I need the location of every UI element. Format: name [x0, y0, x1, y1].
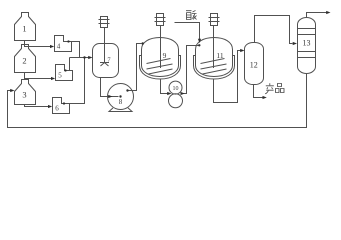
junction dot feeder6 outlet	[63, 102, 65, 104]
arrow into vessel7	[88, 56, 92, 59]
junction dot collector	[83, 56, 85, 58]
text 产品 (product) hand-drawn	[265, 83, 284, 94]
feeder 4	[55, 36, 72, 52]
tank 2	[15, 45, 36, 73]
impeller 7	[100, 63, 109, 67]
junction dot feeder5 outlet	[64, 69, 66, 71]
svg-text:3: 3	[22, 90, 26, 100]
wire column13 top out	[307, 13, 328, 18]
tank 1	[15, 13, 36, 41]
jacket 9	[140, 56, 181, 80]
junction dot feeder4 outlet	[67, 40, 69, 42]
arrow acid down	[198, 39, 201, 43]
svg-text:4: 4	[57, 43, 61, 51]
junction dot reactor11 inlet	[198, 44, 200, 46]
trays 13	[298, 29, 316, 58]
arrow into pump8	[108, 95, 112, 98]
wire vessel12 top to column13	[255, 16, 293, 44]
agitator blades 11	[201, 59, 227, 75]
svg-text:13: 13	[303, 39, 311, 48]
pump 8	[108, 84, 134, 112]
mixer vessel 7	[93, 44, 119, 78]
wire feeder6 out	[63, 58, 85, 104]
motor M11	[209, 14, 220, 69]
feeder 6	[53, 98, 70, 114]
svg-text:11: 11	[216, 51, 223, 60]
wire reactor11 to vessel12	[214, 51, 241, 103]
arrow into feeder4	[50, 45, 54, 48]
agitator blades 9	[147, 59, 173, 75]
column 13	[298, 18, 316, 74]
vessel 12	[245, 43, 264, 85]
svg-text:10: 10	[173, 86, 179, 92]
arrow column13 top out	[326, 11, 330, 14]
acid feed line	[175, 23, 200, 40]
arrow product out	[263, 96, 267, 99]
svg-text:6: 6	[55, 105, 59, 113]
reactor 11	[196, 38, 233, 77]
arrow into feeder5	[51, 77, 55, 80]
svg-text:2: 2	[22, 56, 26, 66]
feeder 5	[56, 65, 73, 81]
arrow into feeder6	[48, 105, 52, 108]
wire collector to vessel7	[70, 57, 90, 59]
motor M9	[155, 14, 166, 69]
wire feeder4 out	[66, 42, 80, 58]
wire tank2 to feeder5	[25, 73, 52, 79]
wire vessel12 bottom product	[254, 85, 264, 98]
text 酸 (acid) hand-drawn	[186, 11, 197, 20]
wire reactor9 to pump10	[161, 80, 169, 94]
wire vessel7 to pump8	[101, 78, 119, 97]
svg-text:9: 9	[163, 51, 167, 60]
junction dot pump8 center	[119, 95, 121, 97]
svg-text:12: 12	[250, 61, 258, 70]
arrow into column13	[293, 42, 297, 45]
junction dot reactor9 inlet	[142, 42, 144, 44]
pump 10	[169, 81, 183, 108]
svg-text:1: 1	[22, 24, 26, 34]
svg-text:5: 5	[58, 72, 62, 80]
wire feeder5 out	[65, 58, 70, 71]
junction dot pump8 outlet	[126, 89, 128, 91]
wire tank3 to feeder6	[25, 105, 49, 107]
motor M7	[99, 17, 110, 63]
jacket 11	[194, 56, 235, 80]
svg-text:7: 7	[107, 57, 111, 64]
wire tank1 to feeder4	[25, 41, 51, 47]
wire pump10 to reactor11	[183, 46, 199, 94]
tank 3	[15, 80, 36, 105]
reactor 9	[142, 38, 179, 77]
wire recycle column13 to tank3	[8, 74, 307, 128]
wire pump8 to reactor9	[128, 44, 142, 91]
arrow pump10 right	[181, 92, 185, 95]
arrow into pump10 left	[167, 92, 171, 95]
arrow recycle into tank3	[10, 89, 14, 92]
arrow into vessel12	[240, 49, 244, 52]
svg-text:8: 8	[119, 98, 123, 106]
